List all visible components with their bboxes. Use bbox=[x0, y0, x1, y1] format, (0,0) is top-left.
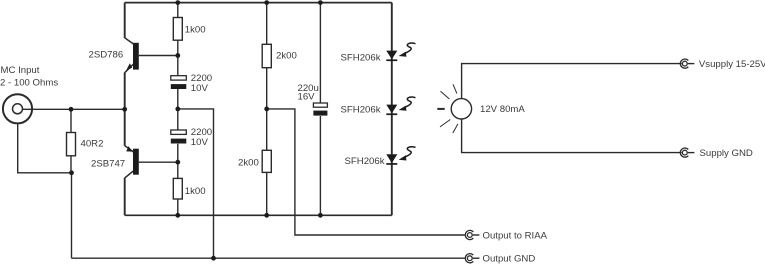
transistor Q1 2SD786 bbox=[125, 38, 139, 73]
wire MC input horizontal bbox=[22, 108, 125, 110]
node top rail / 220u bbox=[318, 0, 323, 5]
wire bottom rail bbox=[125, 214, 392, 216]
node base Q1 bbox=[175, 53, 180, 58]
wire base Q1 bbox=[139, 55, 178, 57]
wire left vertical middle (emitter rail) bbox=[124, 73, 126, 146]
resistor R3 40R2 bbox=[67, 133, 76, 156]
svg-text:2 - 100 Ohms: 2 - 100 Ohms bbox=[0, 78, 58, 89]
wire 220u top stub bbox=[319, 3, 321, 103]
wire lamp top to Vsupply terminal bbox=[462, 64, 682, 99]
connector J1 MC input jack bbox=[3, 94, 32, 123]
wire C2 to R2 (through base node Q2) bbox=[177, 144, 179, 179]
resistor R4 2k00 top bbox=[262, 44, 271, 67]
terminal Supply GND bbox=[680, 148, 694, 157]
lamp 12V 80mA bbox=[437, 84, 471, 133]
wire 40R2 stub top bbox=[70, 109, 72, 132]
terminal Output to RIAA bbox=[465, 230, 479, 239]
node base Q2 bbox=[175, 160, 180, 165]
svg-text:SFH206k: SFH206k bbox=[341, 105, 381, 116]
wire 40R2 stub bottom bbox=[70, 156, 72, 173]
node top rail / R1 bbox=[175, 0, 180, 5]
resistor R5 2k00 bottom bbox=[262, 150, 271, 172]
svg-text:10V: 10V bbox=[191, 137, 209, 148]
capacitor C3 220u/16V bbox=[313, 103, 327, 116]
svg-text:Supply GND: Supply GND bbox=[700, 148, 753, 159]
svg-text:16V: 16V bbox=[298, 92, 316, 103]
node mid caps bbox=[175, 107, 180, 112]
photodiode D1 SFH206k bbox=[386, 43, 415, 61]
svg-text:Output GND: Output GND bbox=[483, 254, 536, 265]
wire left vertical lower (collector Q2 to bottom rail) bbox=[124, 178, 126, 216]
wire R2 bottom stub bbox=[177, 199, 179, 215]
photodiode D2 SFH206k bbox=[386, 97, 415, 115]
wire R1 to C1 (through base node Q1) bbox=[177, 40, 179, 75]
wire 2k00 bottom stub bbox=[266, 172, 268, 215]
transistor Q2 2SB747 bbox=[125, 146, 139, 178]
wire output gnd vertical bbox=[71, 173, 73, 258]
node bottom rail / 220u bbox=[318, 213, 323, 218]
capacitor C2 2200/10V bbox=[171, 130, 187, 144]
capacitor C1 2200/10V bbox=[171, 76, 187, 89]
wire base Q2 bbox=[139, 161, 178, 163]
resistor R1 1k00 bbox=[173, 18, 182, 41]
svg-text:1k00: 1k00 bbox=[185, 25, 206, 36]
wire output RIAA jog bbox=[267, 109, 465, 235]
svg-text:1k00: 1k00 bbox=[185, 186, 206, 197]
svg-text:12V 80mA: 12V 80mA bbox=[480, 104, 525, 115]
wire lamp bottom to Supply GND terminal bbox=[462, 119, 682, 153]
svg-text:2SB747: 2SB747 bbox=[91, 159, 125, 170]
terminal Output GND bbox=[465, 254, 479, 263]
node top rail / 2k00 bbox=[264, 0, 269, 5]
svg-text:2k00: 2k00 bbox=[238, 158, 259, 169]
node bottom rail / 2k00 bbox=[264, 213, 269, 218]
resistor R2 1k00 bbox=[173, 178, 182, 199]
svg-text:MC Input: MC Input bbox=[1, 65, 40, 76]
wire C1 to C2 (through mid node) bbox=[177, 89, 179, 130]
wire 2k00 top stub bbox=[266, 3, 268, 45]
node gnd line / cap-mid drop bbox=[211, 256, 216, 261]
wire MC input down from jack bbox=[18, 124, 72, 173]
svg-text:SFH206k: SFH206k bbox=[345, 156, 385, 167]
node bottom rail / R2 bbox=[175, 213, 180, 218]
node input / 40R2 bbox=[69, 107, 74, 112]
node 40R2 bottom / gnd wire bbox=[69, 170, 74, 175]
svg-text:2k00: 2k00 bbox=[276, 51, 297, 62]
node input / emitter rail bbox=[122, 107, 127, 112]
wire top rail bbox=[125, 2, 392, 4]
node mid 2k00s bbox=[264, 107, 269, 112]
wire left vertical upper (collector Q1 to top rail) bbox=[124, 3, 126, 38]
terminal Vsupply bbox=[680, 59, 694, 68]
svg-text:Vsupply 15-25V: Vsupply 15-25V bbox=[699, 59, 765, 70]
svg-text:2SD786: 2SD786 bbox=[89, 50, 124, 61]
wire 220u bottom stub bbox=[319, 116, 321, 215]
wire mid-cap node jog to gnd bbox=[178, 109, 214, 258]
svg-text:40R2: 40R2 bbox=[81, 139, 104, 150]
svg-text:Output to RIAA: Output to RIAA bbox=[483, 231, 548, 242]
wire between 2k00s bbox=[266, 68, 268, 151]
wire R1 top stub bbox=[177, 3, 179, 18]
wire right edge (diode string) bbox=[391, 3, 393, 216]
wire output gnd horizontal bbox=[72, 257, 465, 259]
photodiode D3 SFH206k bbox=[386, 147, 415, 165]
svg-text:SFH206k: SFH206k bbox=[341, 52, 381, 63]
svg-text:10V: 10V bbox=[191, 83, 209, 94]
